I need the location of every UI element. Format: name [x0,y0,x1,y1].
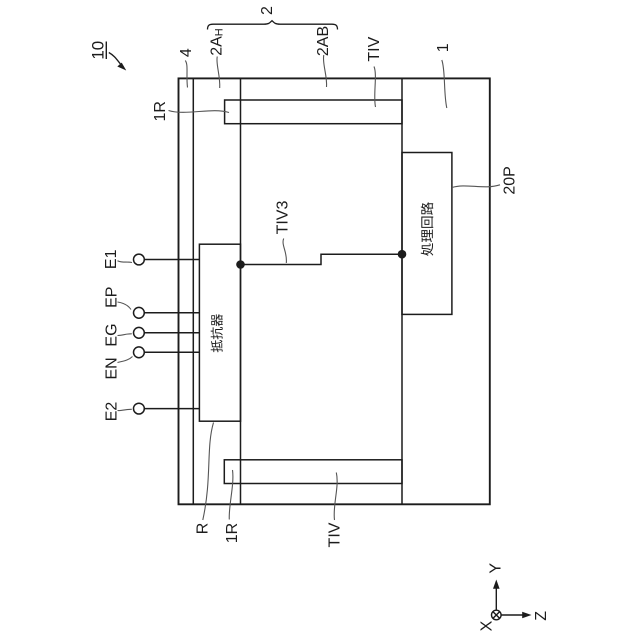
svg-text:20P: 20P [501,166,518,194]
svg-text:TIV: TIV [366,36,383,61]
svg-text:10: 10 [88,41,107,60]
svg-text:4: 4 [178,48,195,57]
svg-text:TIV3: TIV3 [275,201,292,235]
svg-text:1: 1 [435,43,452,52]
svg-text:EN: EN [104,357,121,379]
svg-text:Z: Z [533,611,550,621]
svg-text:TIV: TIV [327,522,344,547]
svg-text:1R: 1R [224,523,241,543]
svg-text:R: R [195,523,212,535]
svg-text:2: 2 [259,6,276,15]
svg-text:E2: E2 [104,402,121,422]
svg-text:E1: E1 [103,249,120,269]
svg-text:2AB: 2AB [315,26,332,56]
svg-text:EP: EP [104,287,121,308]
svg-text:1R: 1R [152,101,169,121]
svg-text:EG: EG [104,323,121,346]
svg-text:X: X [479,620,496,631]
svg-text:Y: Y [488,563,505,574]
